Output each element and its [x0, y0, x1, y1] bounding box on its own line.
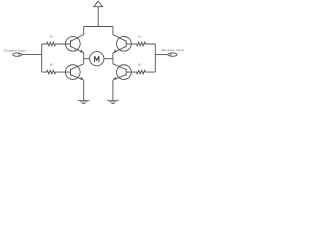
wire motor right [104, 58, 113, 60]
transistor Q1 (top left NPN) [65, 35, 83, 53]
svg-text:Forward input: Forward input [4, 48, 26, 52]
power supply arrow [94, 1, 103, 26]
wire right bus motor segment [112, 53, 114, 64]
svg-text:1k: 1k [138, 35, 141, 39]
svg-text:Reverse input: Reverse input [162, 48, 184, 52]
ground left [78, 100, 90, 103]
wire left input junction vertical [41, 44, 43, 72]
wire left bus collector segment [83, 27, 85, 35]
resistor R1 (top left base) [42, 35, 71, 46]
svg-text:1k: 1k [138, 63, 141, 67]
ground right [107, 100, 119, 103]
svg-text:1k: 1k [50, 35, 53, 39]
resistor R4 (bottom right base) [126, 63, 155, 74]
wire left bus motor segment [83, 53, 85, 64]
transistor Q4 (bottom right NPN, mirrored) [113, 64, 131, 80]
wire right input junction vertical [154, 44, 156, 72]
transistor Q2 (bottom left NPN) [65, 64, 83, 80]
terminal forward input [4, 48, 26, 56]
wire right bus ground segment [112, 80, 114, 100]
terminal reverse input [162, 48, 184, 56]
svg-text:1k: 1k [50, 63, 53, 67]
transistor Q3 (top right NPN, mirrored) [113, 35, 131, 53]
resistor R2 (bottom left base) [42, 63, 71, 74]
wire right bus collector segment [112, 27, 114, 35]
wire motor left [84, 58, 90, 60]
wire left bus ground segment [83, 80, 85, 100]
motor M1 [90, 52, 104, 66]
wire top rail [84, 26, 113, 28]
resistor R3 (top right base) [126, 35, 155, 46]
wire reverse input lead [155, 54, 168, 56]
wire forward input lead [22, 54, 42, 56]
